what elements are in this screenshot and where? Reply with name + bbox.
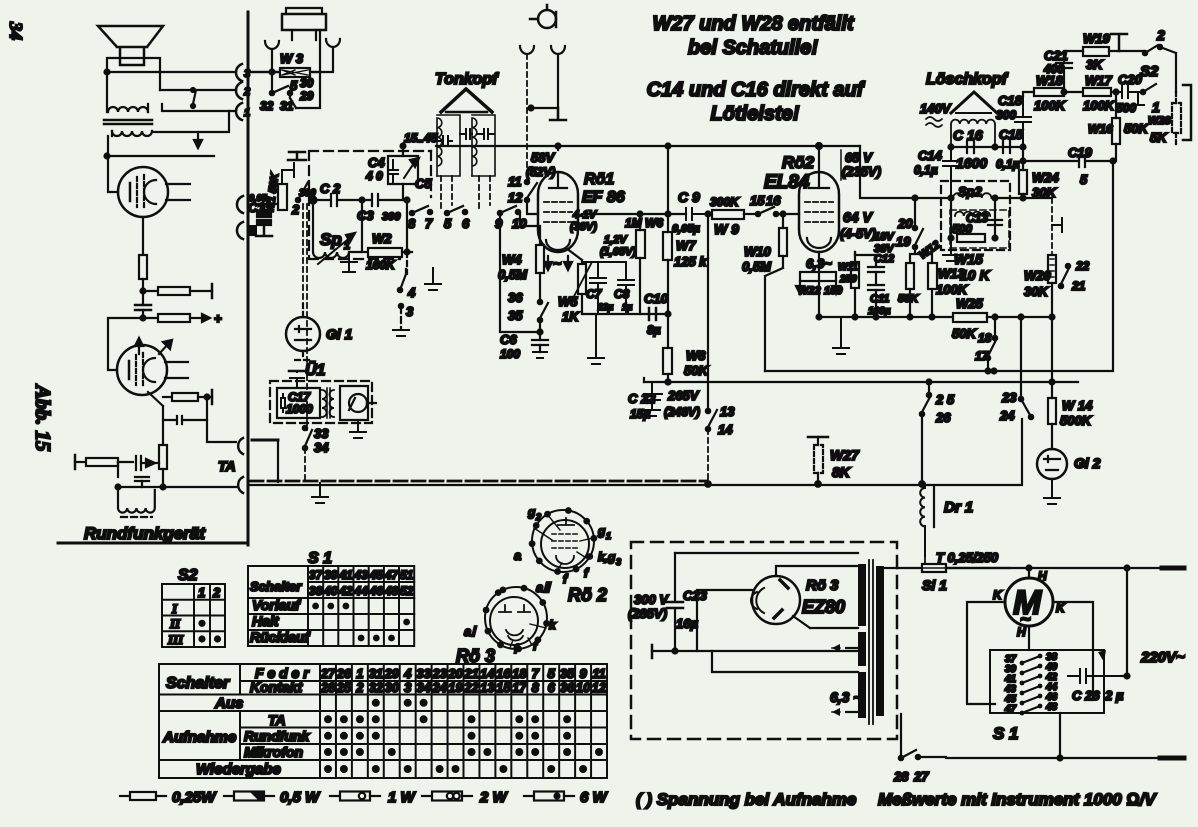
- svg-text:Rö1: Rö1: [584, 171, 614, 188]
- switch 22 21: [1066, 264, 1070, 268]
- cathode bus: [582, 313, 668, 315]
- wire C4 bottom: [403, 184, 406, 200]
- svg-text:0,25W: 0,25W: [172, 789, 217, 806]
- dashed box Sp2: [941, 181, 1010, 250]
- node: [141, 289, 146, 294]
- svg-text:37: 37: [309, 568, 324, 582]
- svg-text:S2: S2: [1140, 63, 1159, 80]
- svg-text:19: 19: [896, 234, 911, 249]
- svg-text:300: 300: [382, 211, 401, 223]
- motor M: [1005, 578, 1053, 626]
- resistor W12: [906, 263, 914, 289]
- svg-text:6,3 ~: 6,3 ~: [830, 689, 862, 705]
- arrow up at tube V2: [138, 340, 140, 354]
- resistor W2: [362, 251, 368, 253]
- legend 0,5W: [224, 795, 234, 797]
- svg-text:Vorlauf: Vorlauf: [252, 597, 301, 613]
- wire W16 column: [1113, 92, 1116, 371]
- svg-text:22: 22: [1075, 259, 1090, 273]
- node: [1125, 674, 1130, 679]
- svg-text:W 3: W 3: [280, 51, 304, 66]
- svg-text:23: 23: [431, 666, 447, 681]
- dashed box right edge: [430, 151, 432, 197]
- svg-text:W17: W17: [1085, 73, 1113, 88]
- node: [949, 145, 954, 150]
- wire 26 to ground bus: [921, 414, 923, 484]
- mains line top: [946, 567, 1162, 569]
- heater winding arrows: [846, 647, 858, 649]
- svg-text:50K: 50K: [952, 326, 977, 341]
- svg-text:27: 27: [320, 666, 336, 681]
- Tonkopf coil left winding: [437, 118, 442, 176]
- resistor W18: [1034, 88, 1064, 96]
- node: [1027, 566, 1032, 571]
- terminal bar left: [651, 645, 654, 658]
- svg-text:W16: W16: [1088, 122, 1113, 136]
- resistor W24: [1019, 170, 1027, 194]
- svg-text:TA: TA: [268, 712, 286, 728]
- Gl1 plates: [295, 326, 311, 340]
- node: [815, 481, 821, 487]
- svg-text:27: 27: [913, 769, 929, 784]
- svg-text:265V: 265V: [667, 388, 700, 403]
- svg-text:C 22: C 22: [628, 391, 656, 406]
- node: [707, 384, 709, 386]
- svg-text:36: 36: [508, 290, 523, 305]
- svg-text:64 V: 64 V: [843, 209, 873, 225]
- svg-text:43: 43: [353, 568, 368, 582]
- svg-text:Rö 2: Rö 2: [568, 585, 607, 605]
- wire Gl1: [295, 304, 311, 360]
- resistor W20: [1048, 255, 1056, 283]
- svg-text:8µ: 8µ: [647, 323, 661, 337]
- mains plug top: [1162, 566, 1184, 571]
- node: [817, 315, 822, 320]
- capacitor C10: [649, 308, 656, 320]
- node: [781, 212, 786, 217]
- wire right column: [1122, 568, 1127, 676]
- svg-text:5: 5: [444, 216, 452, 231]
- wire tube cathode down: [581, 252, 583, 264]
- svg-text:C10: C10: [644, 291, 669, 306]
- svg-text:5: 5: [1080, 172, 1088, 187]
- tube Gl2: [1037, 449, 1067, 479]
- terminal stub right: [1052, 218, 1062, 232]
- resistor W15: [957, 234, 985, 242]
- switch 23 24: [1019, 397, 1023, 401]
- svg-text:2: 2: [1156, 27, 1165, 43]
- svg-text:W8: W8: [686, 348, 706, 363]
- svg-text:26: 26: [336, 666, 352, 681]
- node: [908, 315, 913, 320]
- ground bus rail C solid part: [250, 484, 1022, 486]
- svg-text:W19: W19: [1083, 31, 1111, 46]
- svg-text:g: g: [527, 505, 536, 519]
- svg-text:g: g: [597, 524, 606, 538]
- arrow diagonal at tube V2: [159, 342, 170, 354]
- svg-text:50K: 50K: [684, 363, 709, 378]
- svg-text:17: 17: [512, 680, 527, 695]
- node C2: [310, 197, 317, 204]
- tube V2 envelope: [117, 345, 167, 395]
- connector jack 1: [236, 103, 242, 120]
- svg-text:28: 28: [320, 680, 336, 695]
- svg-text:4: 4: [403, 666, 412, 681]
- svg-text:300 V: 300 V: [634, 592, 669, 607]
- U1 core: [327, 388, 330, 418]
- svg-text:16: 16: [766, 193, 781, 208]
- svg-text:Lötleiste!: Lötleiste!: [711, 103, 800, 125]
- svg-text:34: 34: [416, 680, 431, 695]
- switch 20 19: [914, 198, 916, 226]
- svg-text:W7: W7: [676, 238, 696, 253]
- transformer core: [104, 120, 152, 124]
- svg-text:8: 8: [408, 216, 416, 231]
- svg-text:30K: 30K: [1024, 284, 1049, 299]
- svg-text:C8: C8: [614, 287, 630, 301]
- svg-text:220V~: 220V~: [1140, 649, 1185, 666]
- node: [405, 198, 410, 203]
- svg-text:W24: W24: [1032, 170, 1060, 185]
- wire tube V1 cathode: [142, 217, 144, 255]
- screen feed vertical: [707, 214, 709, 409]
- mains line bottom: [918, 757, 1160, 758]
- resistor W4: [536, 245, 544, 273]
- svg-text:W18: W18: [1036, 73, 1064, 88]
- svg-text:1: 1: [198, 585, 205, 600]
- svg-text:EF 86: EF 86: [582, 189, 625, 206]
- svg-text:29: 29: [299, 89, 314, 103]
- node: [141, 316, 146, 321]
- terminal bar: [550, 108, 566, 120]
- switch contact table: [159, 664, 607, 778]
- wire W24 column: [1022, 147, 1024, 198]
- ground bus rail C dashed part: [250, 480, 707, 483]
- svg-text:0,05µ: 0,05µ: [672, 223, 700, 235]
- node: [666, 312, 671, 317]
- terminal T at C20: [1130, 92, 1142, 106]
- capacitor C21: [1056, 63, 1072, 68]
- wire Sp2 line to W24 column: [995, 197, 1052, 199]
- resistor W16: [1112, 118, 1120, 144]
- node speaker: [105, 70, 110, 75]
- resistor W25: [953, 313, 987, 322]
- arrow plus marker: [197, 132, 199, 146]
- wire: [142, 310, 144, 318]
- switch contacts 30 29: [270, 91, 274, 95]
- antenna cup right: [551, 46, 565, 54]
- svg-text:10: 10: [576, 680, 591, 695]
- capacitor C8: [618, 262, 634, 314]
- capacitor C7: [582, 262, 626, 314]
- wire 19 to W12 W13: [910, 247, 932, 263]
- resistor vertical V2: [159, 445, 167, 469]
- svg-text:Dr 1: Dr 1: [944, 499, 973, 516]
- capacitor coupling: [135, 305, 151, 310]
- connector jack 2: [236, 82, 242, 99]
- svg-text:6 W: 6 W: [580, 789, 609, 806]
- svg-text:1000: 1000: [286, 402, 313, 416]
- resistor W13: [928, 263, 937, 289]
- svg-text:C4: C4: [368, 155, 385, 170]
- wire cup right down: [557, 54, 559, 108]
- svg-text:2 µ: 2 µ: [1104, 688, 1124, 703]
- variable cap C5 arrow: [404, 160, 416, 178]
- capacitor C4 box: [388, 156, 418, 184]
- connector jack TA1: [238, 438, 243, 454]
- svg-text:3: 3: [616, 557, 621, 567]
- U1 primary coil: [322, 390, 327, 417]
- capacitor C14: [943, 147, 959, 198]
- svg-text:28: 28: [893, 769, 909, 784]
- wire tube V1 anode leads: [166, 184, 190, 200]
- svg-text:41: 41: [338, 568, 353, 582]
- svg-text:W15: W15: [954, 251, 983, 267]
- arrow into node: [146, 459, 155, 467]
- capacitor C18: [1015, 96, 1031, 147]
- svg-text:Halt: Halt: [252, 613, 280, 629]
- Tonkopf coil right box: [472, 115, 495, 176]
- svg-text:3: 3: [406, 304, 414, 319]
- wire transformer to Si1: [884, 567, 897, 569]
- svg-text:Ü1: Ü1: [305, 360, 326, 379]
- node: [949, 196, 954, 201]
- node: [405, 250, 410, 255]
- node: [853, 315, 858, 320]
- resistor W14: [1048, 398, 1056, 424]
- svg-text:100K: 100K: [1034, 98, 1067, 113]
- svg-text:W28: W28: [1148, 115, 1172, 127]
- tube Ro1 grids: [544, 202, 572, 222]
- svg-text:Tonkopf: Tonkopf: [435, 71, 499, 88]
- svg-text:C14: C14: [918, 148, 943, 163]
- wire PSU top inner: [675, 552, 858, 554]
- U1 secondary coil: [330, 390, 335, 417]
- svg-text:C15: C15: [999, 127, 1024, 142]
- ground below box: [425, 268, 441, 290]
- svg-text:13: 13: [720, 404, 735, 419]
- resistor W27 dashed with terminal: [808, 436, 828, 439]
- svg-text:1µ: 1µ: [622, 302, 632, 312]
- legend 1W: [330, 795, 340, 797]
- svg-text:17: 17: [975, 349, 990, 363]
- svg-text:1: 1: [1152, 99, 1160, 115]
- Tonkopf coil right winding: [472, 118, 477, 176]
- node: [270, 70, 275, 75]
- svg-text:W6: W6: [645, 216, 663, 230]
- svg-text:25: 25: [336, 680, 352, 695]
- wire C23 column: [674, 553, 676, 601]
- wire bottom inner: [675, 650, 858, 652]
- svg-text:100: 100: [500, 347, 520, 361]
- Tonkopf head triangle: [441, 89, 492, 112]
- svg-text:30: 30: [385, 680, 400, 695]
- tube Ro2 grids: [805, 202, 833, 222]
- transformer primary winding black: [858, 564, 866, 626]
- svg-text:34: 34: [314, 440, 329, 455]
- wire k row: [819, 252, 876, 255]
- svg-text:Sp: Sp: [320, 230, 342, 249]
- wire 2 to right column: [1160, 47, 1176, 92]
- rail A (B+ upper): [765, 370, 1111, 372]
- dashed wire 14 to ground bus: [707, 429, 709, 483]
- svg-text:0,5M: 0,5M: [742, 259, 772, 274]
- svg-text:W2: W2: [372, 231, 392, 246]
- ground in box: [341, 252, 357, 272]
- socket Ro2 internals: [552, 534, 580, 548]
- svg-text:46: 46: [369, 584, 384, 598]
- cap between coils: [460, 129, 472, 139]
- svg-text:C20: C20: [1118, 72, 1143, 87]
- svg-text:15: 15: [496, 680, 511, 695]
- dashed core: [121, 516, 152, 518]
- node transformer: [105, 154, 110, 159]
- node: [1019, 315, 1024, 320]
- wire C21 branch: [1064, 51, 1083, 62]
- wire W28 column: [1175, 92, 1177, 146]
- U1 lamp circle: [349, 394, 367, 412]
- svg-text:C 9: C 9: [678, 189, 700, 205]
- terminal T cap: [288, 152, 306, 160]
- power supply dashed box: [631, 542, 897, 739]
- svg-text:II: II: [169, 616, 181, 631]
- svg-text:Wiedergabe: Wiedergabe: [196, 761, 281, 778]
- svg-text:3: 3: [244, 68, 250, 80]
- svg-text:31: 31: [369, 666, 383, 681]
- wire anode to HT line: [557, 146, 559, 150]
- switch contacts 4 3: [398, 288, 402, 292]
- svg-text:(1,05V): (1,05V): [600, 246, 636, 258]
- svg-text:15µ: 15µ: [630, 407, 650, 421]
- node: [360, 198, 365, 203]
- node: [913, 196, 918, 201]
- arrow W5 variable: [572, 262, 592, 300]
- wire C9 row: [582, 213, 686, 215]
- wire x668 column: [667, 146, 669, 348]
- svg-text:300: 300: [299, 188, 316, 199]
- capacitor C26: [1068, 669, 1122, 683]
- U1 right box: [340, 386, 368, 420]
- ground Gl2: [1044, 479, 1060, 504]
- node: [638, 212, 643, 217]
- svg-text:47: 47: [1004, 704, 1017, 715]
- U1 right ground: [350, 420, 366, 438]
- switch 1: [1141, 90, 1145, 94]
- output transformer primary coil: [108, 107, 148, 112]
- svg-text:100: 100: [824, 285, 843, 297]
- node HT: [666, 144, 671, 149]
- tube Ro1 cathode arc: [546, 240, 570, 250]
- switch 11 12: [525, 180, 529, 184]
- svg-text:14: 14: [480, 666, 495, 681]
- svg-text:15: 15: [750, 193, 765, 208]
- coil Sp2 on line: [953, 193, 991, 198]
- svg-text:2: 2: [355, 680, 364, 695]
- wire W19 row: [1109, 50, 1143, 52]
- resistor W3: [280, 68, 310, 77]
- transformer T core: [869, 560, 873, 724]
- svg-text:S 1: S 1: [308, 550, 332, 567]
- svg-text:4: 4: [407, 285, 416, 300]
- svg-text:23: 23: [1001, 390, 1017, 405]
- wire to TA connector 1: [207, 397, 236, 442]
- svg-text:( ) Spannung bei Aufnahme: ( ) Spannung bei Aufnahme: [636, 790, 856, 809]
- svg-text:16: 16: [496, 666, 511, 681]
- svg-text:33: 33: [416, 666, 431, 681]
- capacitor C3: [362, 194, 406, 206]
- svg-text:16µ: 16µ: [676, 616, 698, 631]
- svg-text:6: 6: [548, 680, 556, 695]
- headphone jack top: [538, 10, 556, 28]
- svg-text:24: 24: [431, 680, 447, 695]
- dashed wire to W20: [1051, 198, 1053, 253]
- choke Dr1 core: [933, 487, 935, 527]
- capacitor C1: [257, 212, 271, 217]
- wire 16 to EL84 grid: [776, 213, 799, 215]
- switch box S1: [990, 650, 1104, 713]
- svg-text:C6: C6: [500, 332, 517, 347]
- svg-text:7: 7: [532, 666, 540, 681]
- legend 2W: [422, 795, 432, 797]
- svg-text:Si 1: Si 1: [922, 577, 947, 593]
- svg-text:22µ: 22µ: [597, 302, 613, 312]
- svg-text:Gl 2: Gl 2: [1074, 455, 1101, 471]
- svg-text:33: 33: [314, 426, 329, 441]
- node: [205, 395, 210, 400]
- coil bottom: [118, 487, 155, 513]
- dashed wire 34 to bus: [304, 448, 306, 483]
- svg-text:20: 20: [447, 666, 463, 681]
- wire motor bottom: [1028, 626, 1030, 650]
- dashed wire from cup to switch 11: [526, 54, 528, 176]
- svg-text:C3: C3: [357, 208, 374, 223]
- svg-text:51: 51: [400, 568, 414, 582]
- svg-text:8: 8: [532, 680, 540, 695]
- switch contacts 8 7: [410, 211, 414, 215]
- inner dashed box C13: [950, 210, 1009, 248]
- ground at bus: [312, 483, 328, 503]
- heater arrows W22: [800, 281, 836, 288]
- svg-text:(235V): (235V): [842, 164, 881, 179]
- svg-text:10 K: 10 K: [960, 267, 990, 283]
- svg-text:W 9: W 9: [714, 221, 739, 237]
- cathode bus: [819, 316, 953, 318]
- resistor grid row1: [143, 290, 158, 292]
- mains plug bottom: [1160, 756, 1184, 761]
- svg-text:100µ: 100µ: [868, 306, 891, 317]
- antenna symbol left: [265, 41, 279, 72]
- switch 13 14: [706, 409, 710, 413]
- switch 18 17: [994, 317, 996, 336]
- svg-text:C19: C19: [1068, 145, 1093, 160]
- svg-text:48: 48: [1045, 702, 1058, 713]
- switch contacts 32 31: [272, 72, 296, 108]
- ground cathode: [588, 314, 604, 364]
- svg-text:44: 44: [353, 584, 368, 598]
- svg-text:15..45: 15..45: [404, 131, 438, 145]
- wire W6: [639, 214, 641, 314]
- arrow Sp1 variable: [318, 236, 352, 264]
- switch contacts 5 6: [445, 211, 449, 215]
- node: [529, 106, 534, 111]
- wire anode to HT: [818, 146, 820, 172]
- wire cathode column: [818, 252, 820, 317]
- svg-text:35: 35: [508, 308, 523, 323]
- tube V2 electrodes: [128, 361, 131, 379]
- svg-text:250: 250: [839, 274, 857, 285]
- svg-text:5: 5: [548, 666, 556, 681]
- connector jack mid b: [237, 222, 243, 239]
